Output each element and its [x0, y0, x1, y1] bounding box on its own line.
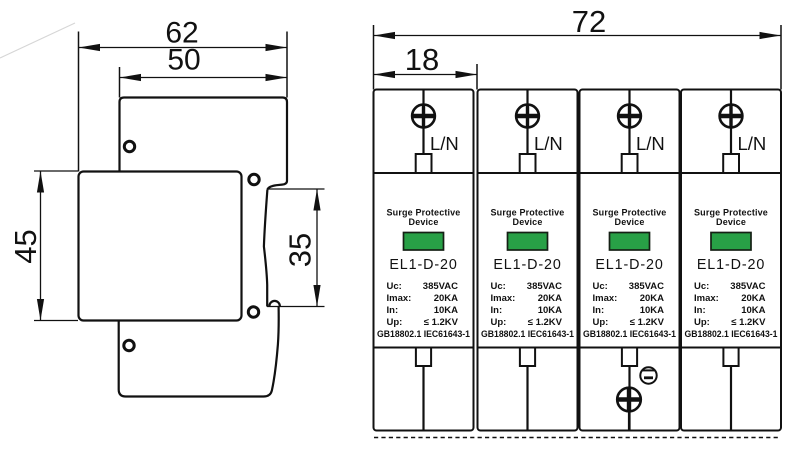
screw boss circle bottom flange [124, 340, 134, 350]
dimension 72 extension right [780, 25, 782, 90]
scan artifact diagonal [0, 23, 75, 58]
svg-text:18: 18 [405, 42, 439, 77]
dimension 62 line [79, 44, 288, 51]
DIN clip notch (half-circle) [269, 301, 280, 307]
top flange and DIN step profile [120, 98, 288, 190]
earth symbol module 3 [640, 367, 656, 383]
dimension 62 extension left [78, 32, 80, 172]
module 1 [374, 90, 474, 431]
screw boss circle right upper [249, 174, 259, 184]
DIN clip wavy edge [264, 190, 268, 307]
dimension 62/50 extension right [286, 32, 288, 98]
svg-text:35: 35 [283, 233, 318, 267]
dimension 72/18 extension left [373, 25, 375, 90]
svg-text:45: 45 [8, 229, 43, 263]
dimension 50 extension left [119, 67, 121, 98]
dimension 35 line [313, 189, 320, 307]
dimension 35 extension top [267, 188, 325, 190]
dimension 50 line [120, 74, 288, 81]
dimension 35 extension bottom [267, 306, 325, 308]
module 3 [580, 90, 680, 431]
bottom flange [119, 307, 279, 397]
module 2 [478, 90, 578, 431]
dimension 45 extension bottom [34, 320, 78, 322]
dimension 45 line [37, 171, 44, 321]
screw boss circle right lower [248, 307, 258, 317]
svg-text:50: 50 [167, 44, 200, 77]
mounting screw module 3 [617, 388, 641, 430]
dashed base line [374, 437, 780, 439]
module 4 [681, 90, 781, 431]
screw boss circle top flange [124, 141, 134, 151]
svg-text:72: 72 [572, 4, 606, 39]
dimension 72 line [374, 32, 782, 39]
dimension 45 extension top [34, 170, 78, 172]
dimension 18 line [374, 71, 478, 78]
dimension 18 extension right [476, 64, 478, 90]
main body (side view) [79, 172, 242, 321]
